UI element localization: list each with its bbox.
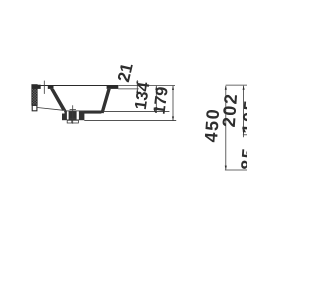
dimension line 450 <box>225 86 227 170</box>
bracket lower white box <box>32 105 37 110</box>
svg-text:21: 21 <box>114 61 137 84</box>
dimension line 202 <box>243 86 245 138</box>
outer shell line upper <box>103 110 169 112</box>
basin right inner wall (section band) <box>100 89 110 113</box>
outer shell bottom line <box>84 120 176 122</box>
arrow 450 top <box>225 86 227 90</box>
basin left inner wall (section band) <box>50 89 67 111</box>
extension line rim bottom <box>118 88 139 90</box>
extension line right top <box>226 84 247 86</box>
arrow 179 top <box>172 86 174 90</box>
rim band right of tap hole <box>48 86 54 89</box>
svg-text:85: 85 <box>237 146 247 170</box>
arrow 134 top <box>155 86 157 90</box>
arrow 21 upper (down) <box>136 82 138 86</box>
drain fitting white slot right <box>77 111 79 119</box>
dimension line 21 <box>136 80 138 93</box>
extension line right bottom <box>225 169 247 171</box>
drain fitting white slot left <box>67 111 69 119</box>
arrow 450 bottom <box>225 166 227 170</box>
drain tailpiece box <box>67 120 78 123</box>
basin bottom section band <box>65 111 102 114</box>
dimension line 134 <box>155 86 157 113</box>
drain centerline <box>72 105 74 123</box>
svg-text:134: 134 <box>132 80 154 111</box>
bracket top cap <box>32 85 41 89</box>
extension line rim top (to middle dims) <box>118 85 175 87</box>
wall bracket hatched bar <box>32 85 37 106</box>
drain fitting upper thin line <box>64 110 84 112</box>
svg-text:179: 179 <box>151 86 172 116</box>
right rim band <box>107 86 119 89</box>
leader line from box to basin <box>37 108 63 111</box>
dimension line 179 <box>172 86 174 121</box>
drain fitting dark band <box>62 114 84 121</box>
drain tailpiece mid verticals <box>71 120 73 123</box>
svg-text:202: 202 <box>219 92 241 128</box>
arrow 202 top <box>243 86 245 90</box>
svg-text:105: 105 <box>238 98 247 134</box>
arrow 179 bottom <box>172 117 174 121</box>
arrow 134 bottom <box>155 107 157 111</box>
extension line right mid <box>243 134 247 136</box>
drain centerline tick upper <box>70 109 76 111</box>
drain centerline tick lower <box>70 118 76 120</box>
arrow 202 bottom <box>243 130 245 134</box>
rim top line <box>32 85 118 87</box>
arrow 21 lower (up) <box>136 89 138 93</box>
tap hole centerline <box>43 81 45 94</box>
